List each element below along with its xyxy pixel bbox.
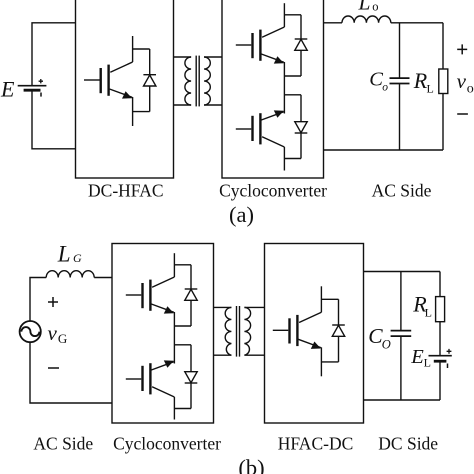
svg-text:G: G xyxy=(58,331,67,346)
wire xyxy=(399,84,401,150)
transistor Q2 (cyclo a top IGBT) xyxy=(236,27,285,64)
wire xyxy=(439,322,441,356)
transistor Q1 (IGBT in DC-HFAC) xyxy=(84,62,133,99)
diode D5 (pointing down) xyxy=(185,372,198,383)
wire xyxy=(149,86,151,112)
resistor RL branch wire (b) xyxy=(439,272,441,297)
label minus (a output) xyxy=(457,113,468,115)
wire emitter Q1 xyxy=(132,97,134,126)
wire collector Q4 xyxy=(173,253,175,277)
label + (a output) xyxy=(457,44,467,54)
wire AC side top xyxy=(324,22,343,24)
battery EL short plate xyxy=(434,360,447,363)
label + (source) xyxy=(48,297,58,307)
svg-text:DC Side: DC Side xyxy=(378,434,438,454)
wire xyxy=(300,50,302,76)
diode D6 xyxy=(332,325,345,336)
svg-text:L: L xyxy=(427,81,434,95)
svg-text:E: E xyxy=(410,346,424,368)
wire collector Q1 xyxy=(132,36,134,62)
svg-text:C: C xyxy=(369,68,383,90)
svg-text:AC Side: AC Side xyxy=(372,181,432,201)
wire collector Q6 xyxy=(320,286,322,312)
resistor RL body xyxy=(439,69,448,94)
svg-text:Cycloconverter: Cycloconverter xyxy=(219,181,327,201)
svg-text:L: L xyxy=(358,0,371,15)
wire Q4 to diode D4 xyxy=(174,264,191,266)
svg-text:Cycloconverter: Cycloconverter xyxy=(113,434,221,454)
wire emitter junction Q2 xyxy=(284,75,301,77)
wire collector junction Q3 xyxy=(284,158,301,160)
diode D4 xyxy=(185,289,198,300)
svg-text:G: G xyxy=(73,251,82,265)
wire DC side top xyxy=(364,271,441,273)
capacitor Co branch wire xyxy=(399,23,401,79)
battery EL plus mark xyxy=(447,349,452,354)
wire emitter junction xyxy=(133,111,150,113)
wire xyxy=(400,336,402,400)
svg-text:v: v xyxy=(48,321,58,345)
wire xyxy=(190,345,192,372)
label minus (source) xyxy=(48,367,59,369)
wire xyxy=(94,277,112,279)
transistor Q4 (cyclo b top IGBT) xyxy=(126,277,175,314)
wire xyxy=(391,22,443,24)
wire xyxy=(439,361,441,400)
wire collector Q5 stub xyxy=(173,397,175,420)
wire xyxy=(338,336,340,362)
wire mid junction to D3 xyxy=(284,94,301,96)
inductor Lo xyxy=(342,16,391,23)
wire AC side bottom xyxy=(324,149,444,151)
wire source top xyxy=(30,278,46,322)
wire xyxy=(190,383,192,409)
transistor Q5 (cyclo b bottom IGBT, mirrored) xyxy=(126,360,175,397)
svg-text:o: o xyxy=(372,0,378,14)
box DC-HFAC xyxy=(76,0,174,178)
transistor Q6 (HFAC-DC IGBT) xyxy=(273,312,322,349)
AC source sine xyxy=(21,327,39,336)
wire source bottom xyxy=(30,342,112,403)
svg-text:(a): (a) xyxy=(229,202,254,227)
wire collector Q2 xyxy=(283,3,285,27)
node: E source loop wires xyxy=(32,23,76,86)
svg-text:L: L xyxy=(425,305,432,319)
wire Q1 to diode D1 xyxy=(133,48,150,50)
wire emitter Q6 xyxy=(320,347,322,376)
battery EL minus tick xyxy=(447,364,449,369)
wire collector junction Q5 xyxy=(174,408,191,410)
svg-text:o: o xyxy=(467,82,474,97)
battery E short plate xyxy=(24,89,41,92)
wire emitter junction Q4 xyxy=(174,325,191,327)
box HFAC-DC xyxy=(265,244,364,424)
inductor LG xyxy=(46,271,94,278)
wire emitter Q4 to midpoint xyxy=(173,312,175,364)
svg-text:E: E xyxy=(0,76,15,101)
capacitor Co plates xyxy=(390,77,410,79)
diode D1 xyxy=(143,75,156,86)
diode D3 (pointing down) xyxy=(295,122,308,133)
svg-text:O: O xyxy=(382,337,391,351)
capacitor CO plates xyxy=(391,330,412,332)
svg-text:AC Side: AC Side xyxy=(33,434,93,454)
wire xyxy=(190,265,192,289)
transistor Q3 (cyclo a bottom IGBT, mirrored) xyxy=(236,110,285,147)
battery EL long plate xyxy=(429,355,452,357)
capacitor CO branch wire xyxy=(400,272,402,331)
resistor RL branch wire xyxy=(442,23,444,69)
wire emitter junction Q6 xyxy=(321,361,338,363)
svg-text:HFAC-DC: HFAC-DC xyxy=(278,434,354,454)
transformer T1 xyxy=(174,56,223,107)
wire xyxy=(190,300,192,326)
transformer T2 xyxy=(214,306,265,357)
wire Q6 to diode D6 xyxy=(321,298,338,300)
svg-text:L: L xyxy=(57,242,71,267)
box Cycloconverter (a) xyxy=(222,0,324,178)
svg-text:(b): (b) xyxy=(238,455,264,474)
wire xyxy=(300,95,302,122)
svg-text:o: o xyxy=(382,81,388,93)
resistor RL body (b) xyxy=(436,297,445,322)
wire DC side bottom xyxy=(364,399,441,401)
wire xyxy=(442,94,444,151)
diode D2 xyxy=(295,39,308,50)
battery plus mark xyxy=(39,79,43,83)
battery minus tick xyxy=(40,93,42,97)
wire xyxy=(300,133,302,159)
wire emitter Q2 to midpoint xyxy=(283,62,285,114)
wire Q2 to diode D2 xyxy=(284,14,301,16)
svg-text:v: v xyxy=(457,69,467,93)
wire collector Q3 stub xyxy=(283,147,285,171)
svg-text:DC-HFAC: DC-HFAC xyxy=(88,181,164,201)
wire mid junction to D5 xyxy=(174,344,191,346)
wire xyxy=(338,299,340,325)
wire xyxy=(32,90,76,149)
box Cycloconverter (b) xyxy=(112,244,214,424)
wire xyxy=(300,15,302,39)
battery E long plate xyxy=(18,85,47,87)
wire xyxy=(149,49,151,75)
AC source vG circle xyxy=(20,321,41,342)
svg-text:L: L xyxy=(424,356,431,370)
